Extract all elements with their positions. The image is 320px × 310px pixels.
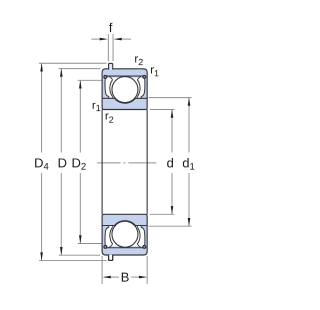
f left ext line	[107, 34, 109, 61]
D4 arrows	[40, 63, 43, 71]
B left ext line	[101, 256, 103, 284]
label d	[167, 158, 173, 168]
label r2 left lower	[106, 113, 114, 122]
label B	[122, 273, 129, 282]
label d1	[183, 158, 195, 170]
d1 arrows	[188, 98, 191, 106]
D2 top ext line	[78, 79, 102, 81]
label D2	[73, 158, 86, 169]
B arrows	[103, 276, 111, 279]
bottom tab, white	[109, 255, 113, 261]
D bottom ext line	[59, 254, 101, 256]
d arrows	[171, 110, 174, 118]
f right ext line	[112, 34, 114, 61]
d1 bottom ext line	[149, 225, 192, 227]
D2 bottom ext line	[78, 243, 102, 245]
top tab (snap ring), light blue	[109, 63, 113, 69]
D4 dim line	[41, 63, 43, 152]
D top ext line	[59, 68, 101, 70]
f arrows	[100, 38, 108, 41]
label r1 left	[93, 103, 101, 111]
D arrows	[60, 69, 63, 77]
label r2 top	[135, 56, 143, 65]
label D4	[35, 158, 48, 169]
label D	[59, 158, 67, 167]
D2 dim line	[79, 80, 81, 152]
d top ext line	[150, 109, 175, 111]
f arrow line right	[116, 38, 131, 40]
B dim line	[105, 276, 120, 278]
D4 bottom ext line	[39, 260, 107, 262]
d dim line	[171, 110, 173, 153]
D dim line	[60, 69, 62, 153]
D4 top ext line	[39, 62, 107, 64]
f arrow line left	[91, 38, 105, 40]
B right ext line	[146, 256, 148, 284]
label r1 top right	[151, 67, 159, 76]
d bottom ext line	[150, 213, 175, 215]
D2 arrows	[79, 80, 82, 88]
d1 top ext line	[149, 97, 192, 99]
d1 dim line	[188, 98, 190, 153]
label f	[109, 23, 112, 32]
